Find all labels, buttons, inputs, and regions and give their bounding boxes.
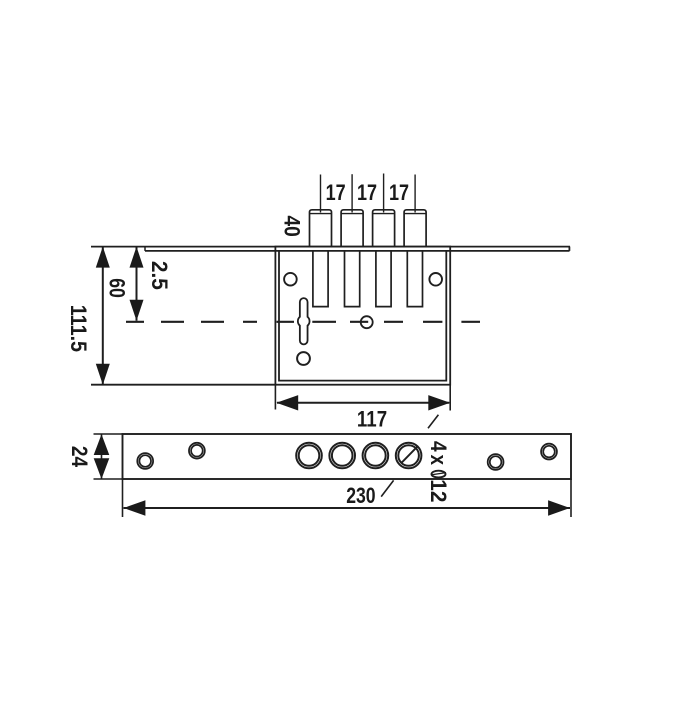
svg-text:17: 17 <box>357 181 377 205</box>
svg-text:60: 60 <box>104 278 128 298</box>
svg-text:12: 12 <box>426 479 451 502</box>
svg-text:111.5: 111.5 <box>66 305 90 353</box>
svg-text:x: x <box>425 455 449 466</box>
svg-text:24: 24 <box>67 446 92 468</box>
svg-text:4: 4 <box>425 441 450 452</box>
svg-text:40: 40 <box>279 215 304 236</box>
svg-text:2.5: 2.5 <box>147 261 172 290</box>
svg-text:117: 117 <box>357 408 387 432</box>
svg-text:17: 17 <box>389 181 409 205</box>
svg-text:17: 17 <box>326 181 346 205</box>
svg-text:230: 230 <box>346 484 375 508</box>
